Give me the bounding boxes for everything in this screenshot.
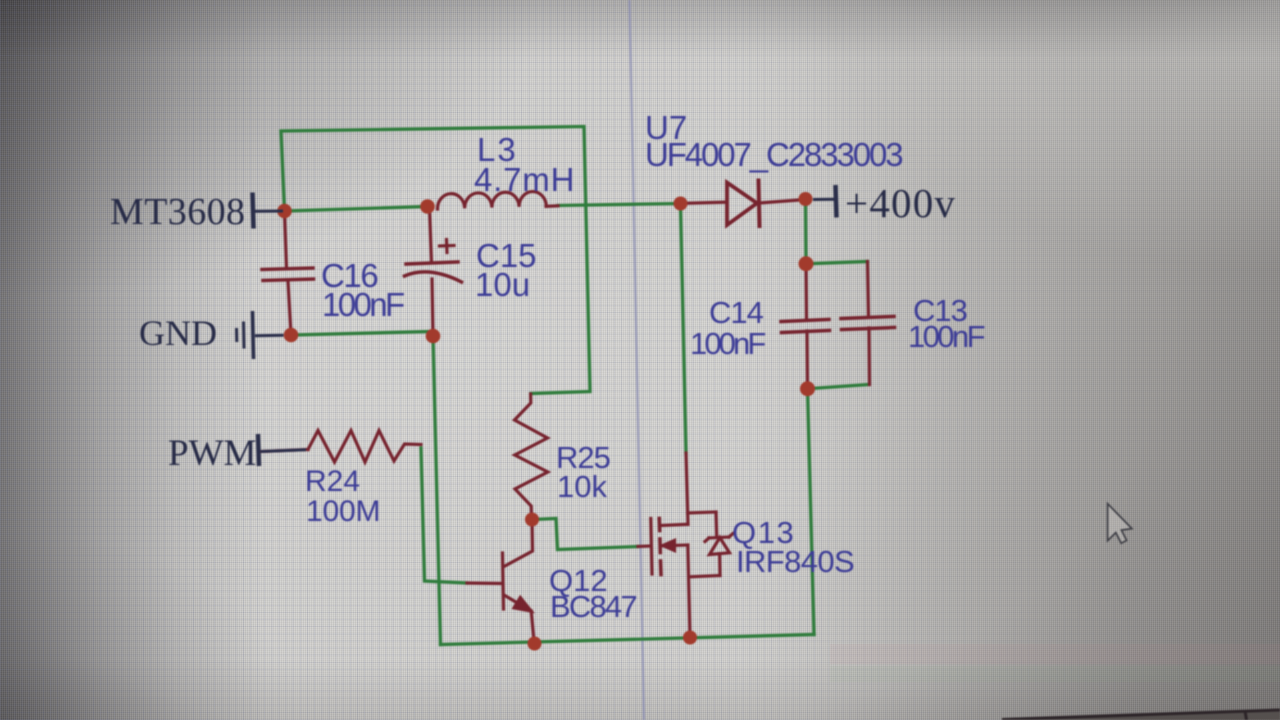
svg-text:4.7mH: 4.7mH	[474, 161, 575, 198]
svg-text:100nF: 100nF	[322, 286, 404, 323]
svg-text:UF4007_C2833003: UF4007_C2833003	[645, 136, 902, 173]
svg-text:GND: GND	[139, 313, 217, 353]
svg-text:C14: C14	[709, 295, 764, 330]
svg-text:10k: 10k	[557, 469, 607, 504]
svg-text:+400v: +400v	[845, 180, 956, 226]
svg-text:BC847: BC847	[550, 589, 636, 624]
svg-text:100M: 100M	[306, 495, 380, 528]
svg-text:MT3608: MT3608	[110, 191, 245, 233]
svg-text:100nF: 100nF	[690, 326, 765, 361]
svg-text:IRF840S: IRF840S	[736, 544, 854, 579]
svg-text:PWM: PWM	[168, 433, 256, 474]
svg-text:R24: R24	[305, 465, 360, 498]
svg-text:10u: 10u	[475, 266, 530, 303]
svg-text:100nF: 100nF	[908, 319, 985, 354]
